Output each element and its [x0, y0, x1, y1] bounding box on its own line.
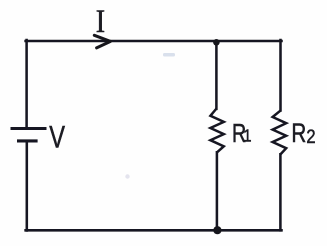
resistor R2 zigzag — [273, 110, 287, 154]
wire R1 branch bottom lead — [216, 152, 219, 230]
wire right vertical lower (R2 bottom lead) — [279, 154, 282, 230]
svg-text:2: 2 — [306, 126, 315, 148]
wire R1 branch top lead — [215, 42, 218, 109]
svg-text:1: 1 — [243, 127, 251, 146]
svg-text:I: I — [96, 3, 105, 40]
wire left vertical lower (battery bottom lead) — [26, 141, 29, 230]
junction dot top node — [213, 39, 220, 46]
battery V (long positive plate) — [11, 127, 47, 130]
wire bottom horizontal — [26, 229, 282, 232]
svg-text:V: V — [49, 119, 65, 154]
resistor R1 zigzag — [210, 109, 223, 153]
wire right vertical upper (R2 top lead) — [279, 40, 282, 111]
current arrow head on top wire — [94, 35, 110, 48]
junction dot bottom node — [213, 226, 221, 234]
wire top horizontal — [26, 40, 282, 43]
battery V (short negative plate) — [17, 139, 38, 142]
svg-text:R: R — [291, 118, 306, 148]
wire left vertical upper (battery top lead) — [25, 40, 28, 128]
